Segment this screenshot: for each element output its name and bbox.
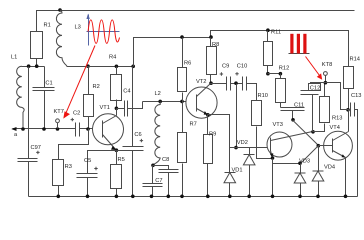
transistor VT2 xyxy=(186,79,217,118)
capacitor C8 xyxy=(153,157,179,198)
annotation red arrow to KT7 xyxy=(63,46,95,119)
annotation pulse graphic xyxy=(289,34,310,54)
wire top rail xyxy=(37,11,355,32)
svg-text:C10: C10 xyxy=(237,64,247,70)
annotation sine graphic xyxy=(86,14,119,46)
svg-text:KT7: KT7 xyxy=(54,109,64,115)
transistor VT3 xyxy=(267,122,313,158)
svg-text:R9: R9 xyxy=(209,131,216,137)
svg-text:C11: C11 xyxy=(294,103,304,109)
capacitor C1 xyxy=(33,67,55,129)
svg-text:KT8: KT8 xyxy=(322,62,332,68)
svg-text:R10: R10 xyxy=(258,93,268,99)
capacitor C2 xyxy=(71,111,93,137)
diode VD2 xyxy=(237,140,255,198)
svg-text:R5: R5 xyxy=(118,157,125,163)
capacitor C97 line xyxy=(18,67,41,197)
capacitor C7 xyxy=(143,166,163,199)
resistor R14 xyxy=(344,56,360,111)
resistor R1 xyxy=(31,23,51,67)
resistor R4 xyxy=(109,55,122,111)
inductor L1 xyxy=(11,55,24,130)
capacitor C13 xyxy=(349,93,362,197)
resistor R5 xyxy=(111,151,125,199)
node dots main wire xyxy=(21,127,59,131)
VT4 emitter to ground xyxy=(344,158,348,199)
transistor VT4 xyxy=(319,125,353,160)
wire B upper xyxy=(134,28,349,66)
resistor R6 xyxy=(178,38,192,102)
svg-text:R7: R7 xyxy=(190,121,197,127)
resistor R10 xyxy=(252,93,273,159)
VT3 emitter node xyxy=(271,156,301,198)
svg-text:C13: C13 xyxy=(351,93,361,99)
annotation red arrow to KT8 xyxy=(306,57,323,80)
svg-text:C5: C5 xyxy=(84,158,91,164)
emitter node VT1 xyxy=(88,148,123,173)
svg-text:C9: C9 xyxy=(222,64,229,70)
svg-text:VD2: VD2 xyxy=(237,140,248,146)
node A1 wire xyxy=(22,64,45,68)
capacitor C4 xyxy=(117,88,143,116)
diode VD3 xyxy=(294,159,310,199)
svg-text:C4: C4 xyxy=(123,88,130,94)
capacitor C6 xyxy=(123,67,144,199)
resistor R11 xyxy=(264,30,282,76)
svg-text:VD3: VD3 xyxy=(299,159,310,165)
test point KT7 xyxy=(54,109,64,128)
svg-text:C6: C6 xyxy=(134,132,141,138)
VT4 collector wire xyxy=(348,110,350,132)
resistor R8 xyxy=(207,38,220,85)
test point KT8 xyxy=(322,62,332,85)
svg-text:C97: C97 xyxy=(31,145,41,151)
capacitor C12 xyxy=(301,84,321,132)
svg-text:C2: C2 xyxy=(73,111,80,117)
diode VD4 xyxy=(312,146,335,199)
svg-text:R13: R13 xyxy=(332,115,342,121)
svg-text:VT2: VT2 xyxy=(196,79,206,85)
cross coupling diagonal xyxy=(293,120,321,165)
svg-text:R14: R14 xyxy=(350,56,360,62)
inductor L3 xyxy=(56,8,80,66)
wire node A2 xyxy=(67,65,136,69)
svg-text:L2: L2 xyxy=(155,91,161,97)
wire L2 top xyxy=(143,100,197,104)
svg-text:VT3: VT3 xyxy=(273,122,283,128)
resistor R13 xyxy=(313,83,343,132)
svg-text:R4: R4 xyxy=(109,55,116,61)
svg-text:R6: R6 xyxy=(184,61,191,67)
svg-text:R11: R11 xyxy=(271,30,281,36)
diode VD1 xyxy=(224,148,243,199)
svg-text:VD4: VD4 xyxy=(324,165,335,171)
svg-text:VT4: VT4 xyxy=(330,125,340,131)
transistor VT1 xyxy=(93,105,124,151)
svg-text:R12: R12 xyxy=(279,66,289,72)
svg-text:C1: C1 xyxy=(45,80,52,86)
inductor L2 xyxy=(151,91,161,167)
svg-text:R3: R3 xyxy=(65,164,72,170)
detector node wires xyxy=(208,84,271,150)
ground rail xyxy=(29,196,358,198)
resistor R12 xyxy=(268,66,290,108)
resistor R2 xyxy=(84,64,100,130)
KT8 node wires xyxy=(311,83,349,110)
svg-text:C12: C12 xyxy=(310,86,320,92)
terminal a xyxy=(11,127,75,138)
capacitor C10 xyxy=(231,64,257,101)
svg-text:VT1: VT1 xyxy=(100,105,110,111)
svg-text:R8: R8 xyxy=(212,42,219,48)
capacitor C9 xyxy=(211,64,231,91)
resistor R3 xyxy=(53,129,89,199)
svg-text:C8: C8 xyxy=(162,157,169,163)
capacitor C5 xyxy=(77,158,98,198)
svg-text:VD1: VD1 xyxy=(232,168,243,174)
resistor R9 xyxy=(204,113,217,198)
resistor R7 xyxy=(178,102,197,199)
svg-text:L3: L3 xyxy=(75,25,81,31)
svg-text:L1: L1 xyxy=(11,55,17,61)
svg-text:R1: R1 xyxy=(44,23,51,29)
svg-text:R2: R2 xyxy=(93,84,100,90)
svg-text:C7: C7 xyxy=(155,178,162,184)
capacitor C11 xyxy=(281,103,305,122)
